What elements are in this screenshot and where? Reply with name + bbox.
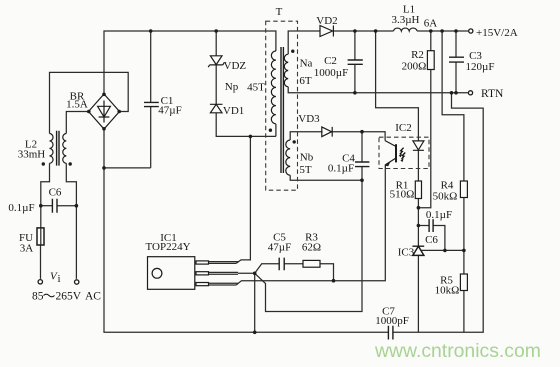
transformer core bbox=[281, 47, 283, 173]
wire Nb top to VD3 bbox=[290, 132, 322, 140]
svg-text:200Ω: 200Ω bbox=[402, 61, 427, 73]
top rail junction dots bbox=[353, 29, 357, 33]
wire C6 input cap right bbox=[57, 205, 76, 207]
terminal AC left bbox=[38, 280, 42, 284]
svg-text:Np: Np bbox=[225, 81, 239, 93]
wire control pin double trace bbox=[209, 283, 237, 285]
wire bottom rail right of C7 to RTN riser bbox=[393, 93, 483, 332]
svg-text:C2: C2 bbox=[324, 55, 337, 67]
IC2 phototransistor emitter arrow bbox=[385, 161, 391, 166]
junction dot source node bbox=[253, 272, 257, 276]
wire AC right lead bbox=[66, 163, 76, 279]
inductor L2 core bbox=[57, 131, 59, 166]
winding Nb polarity dot bbox=[293, 140, 296, 143]
wire Na top to VD2 and +15V rail bbox=[288, 31, 320, 54]
fuse FU bbox=[37, 228, 44, 245]
wire BR loop left winding to bridge AC bbox=[50, 72, 129, 133]
svg-text:120µF: 120µF bbox=[466, 61, 495, 73]
wire drain pin double trace bbox=[209, 262, 237, 264]
wire sense line +15V to R4 bbox=[442, 31, 464, 181]
wire R4 to divider node to R5 bbox=[463, 198, 465, 275]
wire C6 comp branch bbox=[418, 226, 445, 251]
svg-text:Na: Na bbox=[300, 58, 313, 70]
wire primary DC minus rail bridge to C1 bbox=[104, 167, 151, 169]
junction dot Nb bottom bbox=[360, 178, 364, 182]
svg-text:62Ω: 62Ω bbox=[302, 242, 321, 254]
wire drain vertical to IC1 top pin bbox=[236, 136, 250, 263]
svg-text:10kΩ: 10kΩ bbox=[435, 285, 460, 297]
wire bottom rail left of C7 bbox=[104, 129, 388, 332]
svg-text:Nb: Nb bbox=[300, 152, 314, 164]
svg-text:33mH: 33mH bbox=[18, 149, 46, 161]
junction dot ref to C6 bbox=[443, 249, 447, 253]
junction dot VD1 node bbox=[249, 135, 253, 139]
inductor L2 right winding bbox=[63, 134, 67, 164]
svg-text:IC2: IC2 bbox=[395, 122, 412, 134]
IC1 TOP224Y package bbox=[148, 257, 195, 290]
svg-text:510Ω: 510Ω bbox=[390, 189, 415, 201]
wire rail L1 to +15V terminal bbox=[417, 30, 468, 32]
svg-text:6T: 6T bbox=[299, 75, 312, 87]
wire LED anode from pre-L1 rail bbox=[376, 31, 419, 141]
inductor L2 left winding bbox=[50, 134, 54, 164]
transformer T dashed box bbox=[266, 21, 298, 190]
resistor R2 bbox=[427, 51, 434, 70]
shunt regulator IC3 bbox=[412, 246, 424, 255]
svg-text:www.cntronics.com: www.cntronics.com bbox=[374, 340, 541, 362]
junction dot C6 comp node bbox=[417, 224, 421, 228]
optocoupler IC2 dashed box bbox=[379, 137, 429, 168]
svg-text:RTN: RTN bbox=[481, 88, 504, 100]
junction dot VDZ top bbox=[214, 29, 218, 33]
svg-text:0.1µF: 0.1µF bbox=[8, 202, 34, 214]
junction dot R1 bottom node bbox=[417, 206, 421, 210]
terminal RTN bbox=[468, 91, 472, 95]
wire C5 to R3 bbox=[284, 263, 303, 265]
wire source node down to Y-cap rail bbox=[254, 273, 256, 332]
capacitor C5 plates bbox=[279, 258, 284, 271]
wire C6 input cap left bbox=[41, 205, 53, 207]
svg-text:VD1: VD1 bbox=[223, 105, 244, 117]
bridge BR inner diode bbox=[98, 101, 111, 123]
junction dot C1 top bbox=[149, 29, 153, 33]
winding Nb bbox=[286, 140, 290, 175]
svg-text:1.5A: 1.5A bbox=[66, 99, 88, 111]
resistor R5 bbox=[460, 274, 467, 291]
resistor R4 bbox=[460, 181, 467, 198]
wire IC3 anode to bottom rail bbox=[417, 255, 419, 332]
bridge rectifier BR diamond bbox=[89, 94, 120, 129]
IC1 pin 3 drain bbox=[196, 261, 209, 264]
bridge vertex junctions bbox=[102, 93, 106, 97]
wire TL431 ref line bbox=[421, 249, 464, 251]
resistor R3 bbox=[303, 260, 320, 267]
svg-text:1000µF: 1000µF bbox=[314, 67, 348, 79]
wire C4 top to VD3 node bbox=[361, 132, 363, 162]
zener VDZ bbox=[208, 56, 224, 67]
diode VD3 bbox=[322, 127, 332, 137]
inductor L1 bbox=[394, 28, 418, 31]
wire LED cathode to R1 bbox=[417, 150, 419, 181]
IC1 mounting hole bbox=[152, 268, 162, 278]
winding Np bbox=[271, 51, 276, 124]
terminal AC right bbox=[75, 280, 79, 284]
svg-text:6A: 6A bbox=[424, 18, 438, 30]
IC1 pin 1 control bbox=[196, 283, 209, 286]
wire C1 branch bbox=[150, 31, 152, 168]
IC2 LED bbox=[413, 141, 424, 150]
svg-text:VD2: VD2 bbox=[316, 15, 337, 27]
diode VD2 bbox=[320, 26, 333, 37]
svg-text:C6: C6 bbox=[49, 187, 62, 199]
capacitor C6 comp plates bbox=[429, 219, 433, 232]
svg-text:0.1µF: 0.1µF bbox=[426, 209, 452, 221]
capacitor C2 plates bbox=[348, 60, 363, 64]
IC1 pin 2 source bbox=[196, 272, 209, 275]
svg-text:C3: C3 bbox=[469, 50, 482, 62]
wire bridge AC to right winding bbox=[66, 112, 88, 134]
resistor R1 bbox=[415, 181, 421, 199]
wire R5 to bottom rail bbox=[463, 291, 465, 333]
RTN rail junction dots bbox=[353, 91, 357, 95]
wire VDZ VD1 clamp branch bbox=[216, 31, 276, 136]
svg-text:AC: AC bbox=[85, 291, 101, 303]
wire source pin to node bbox=[238, 272, 255, 274]
wire source node to C5 bbox=[255, 264, 280, 274]
wire R3 to control rail bbox=[320, 264, 334, 281]
svg-text:TOP224Y: TOP224Y bbox=[145, 241, 190, 253]
wire primary top rail from bridge to Np top bbox=[104, 31, 276, 94]
junction dot divider node bbox=[462, 249, 466, 253]
terminal +15V bbox=[469, 29, 473, 33]
junction dot DC minus corner bbox=[102, 166, 106, 170]
svg-text:45T: 45T bbox=[247, 82, 265, 94]
wire C2 branch bbox=[354, 31, 356, 93]
svg-text:T: T bbox=[276, 6, 283, 18]
L2 polarity dots bbox=[42, 162, 45, 165]
winding Na polarity dot bbox=[291, 50, 294, 53]
svg-text:3A: 3A bbox=[20, 243, 34, 255]
wire VD3 to opto collector bbox=[332, 132, 385, 141]
capacitor C6 input plates bbox=[52, 199, 57, 213]
wire Nb bottom rail bbox=[290, 175, 362, 180]
svg-text:R2: R2 bbox=[411, 49, 424, 61]
winding Np polarity dot bbox=[269, 129, 272, 132]
junction dot R3 control rail bbox=[332, 279, 336, 283]
svg-text:1000pF: 1000pF bbox=[375, 315, 409, 327]
wire rail VD2 to L1 bbox=[334, 30, 394, 32]
C6 input junction dots bbox=[39, 204, 43, 208]
svg-text:i: i bbox=[58, 273, 61, 285]
svg-text:VD3: VD3 bbox=[298, 113, 320, 125]
wire control pin rail to opto emitter corner bbox=[236, 169, 385, 286]
svg-text:47µF: 47µF bbox=[268, 242, 291, 254]
wire R1 to node and IC3 bbox=[417, 199, 419, 247]
capacitor C1 plates bbox=[144, 102, 159, 106]
wire source pin double trace bbox=[209, 272, 239, 274]
svg-text:C6: C6 bbox=[425, 234, 438, 246]
svg-text:0.1µF: 0.1µF bbox=[328, 163, 354, 175]
svg-text:VDZ: VDZ bbox=[224, 60, 247, 72]
svg-text:IC3: IC3 bbox=[398, 247, 415, 259]
IC2 phototransistor bbox=[385, 141, 396, 169]
capacitor C3 plates bbox=[449, 57, 464, 62]
wire AC left lead with fuse bbox=[41, 163, 50, 279]
wire Np bottom bbox=[275, 124, 277, 136]
capacitor C7 plates bbox=[388, 326, 393, 340]
junction dot source to bottom rail bbox=[253, 331, 257, 335]
winding Na bbox=[284, 54, 288, 87]
wire C3 branch bbox=[455, 31, 457, 93]
svg-text:85: 85 bbox=[32, 291, 44, 303]
capacitor C4 plates bbox=[355, 162, 369, 167]
svg-text:265V: 265V bbox=[56, 291, 82, 303]
svg-text:3.3µH: 3.3µH bbox=[391, 14, 419, 26]
junction dot C4 top bbox=[360, 130, 364, 134]
diode VD1 bbox=[210, 104, 223, 113]
wire RTN rail bbox=[288, 87, 468, 93]
wire R2 branch bbox=[418, 31, 430, 208]
IC2 light arrows bbox=[400, 148, 406, 159]
svg-text:5T: 5T bbox=[299, 164, 312, 176]
svg-text:47µF: 47µF bbox=[158, 105, 181, 117]
wire source node feedback to bias return bbox=[255, 167, 362, 312]
svg-text:+15V/2A: +15V/2A bbox=[476, 27, 518, 39]
svg-text:50kΩ: 50kΩ bbox=[433, 191, 458, 203]
